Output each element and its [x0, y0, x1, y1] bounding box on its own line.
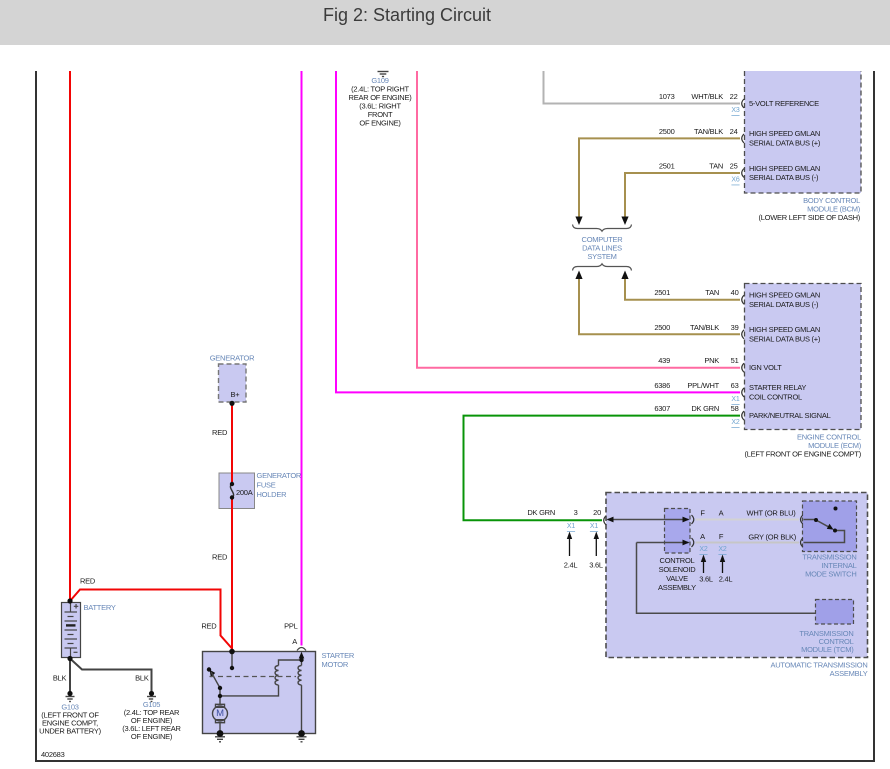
svg-text:X2: X2	[699, 546, 707, 553]
svg-text:PNK: PNK	[704, 356, 719, 365]
svg-text:SERIAL DATA BUS (-): SERIAL DATA BUS (-)	[749, 300, 819, 309]
svg-text:2501: 2501	[659, 162, 675, 171]
svg-text:(LEFT FRONT OF ENGINE COMPT): (LEFT FRONT OF ENGINE COMPT)	[745, 449, 862, 458]
svg-text:WHT (OR BLU): WHT (OR BLU)	[747, 509, 797, 518]
svg-text:UNDER BATTERY): UNDER BATTERY)	[39, 727, 101, 736]
svg-text:HIGH SPEED GMLAN: HIGH SPEED GMLAN	[749, 164, 820, 173]
svg-text:25: 25	[730, 162, 738, 171]
svg-text:HOLDER: HOLDER	[257, 490, 288, 499]
svg-text:G105: G105	[143, 700, 160, 709]
svg-text:OF ENGINE): OF ENGINE)	[359, 118, 401, 127]
svg-text:COIL CONTROL: COIL CONTROL	[749, 393, 802, 402]
svg-text:2501: 2501	[654, 288, 670, 297]
svg-text:6307: 6307	[654, 404, 670, 413]
svg-text:X6: X6	[731, 177, 739, 184]
svg-text:RED: RED	[201, 622, 217, 631]
svg-text:F: F	[719, 532, 724, 541]
svg-text:X1: X1	[567, 523, 575, 530]
svg-text:(LOWER LEFT SIDE OF DASH): (LOWER LEFT SIDE OF DASH)	[758, 213, 860, 222]
svg-text:RED: RED	[212, 428, 228, 437]
svg-text:HIGH SPEED GMLAN: HIGH SPEED GMLAN	[749, 325, 820, 334]
svg-text:2500: 2500	[659, 127, 675, 136]
svg-text:2500: 2500	[654, 323, 670, 332]
svg-text:TAN/BLK: TAN/BLK	[694, 127, 723, 136]
svg-text:PPL: PPL	[284, 622, 298, 631]
svg-text:5-VOLT REFERENCE: 5-VOLT REFERENCE	[749, 99, 819, 108]
svg-text:1073: 1073	[659, 92, 675, 101]
svg-text:ASSEMBLY: ASSEMBLY	[830, 669, 868, 678]
svg-text:A: A	[719, 509, 724, 518]
svg-text:SERIAL DATA BUS (+): SERIAL DATA BUS (+)	[749, 139, 821, 148]
svg-text:SERIAL DATA BUS (+): SERIAL DATA BUS (+)	[749, 335, 821, 344]
svg-text:SERIAL DATA BUS (-): SERIAL DATA BUS (-)	[749, 173, 819, 182]
svg-text:MODULE (BCM): MODULE (BCM)	[807, 205, 861, 214]
svg-text:40: 40	[731, 288, 739, 297]
svg-text:2.4L: 2.4L	[719, 574, 733, 583]
svg-text:X1: X1	[731, 396, 739, 403]
svg-text:GENERATOR: GENERATOR	[257, 471, 302, 480]
svg-text:MODE SWITCH: MODE SWITCH	[805, 570, 856, 579]
svg-text:63: 63	[731, 381, 739, 390]
svg-text:58: 58	[731, 404, 739, 413]
svg-text:22: 22	[730, 92, 738, 101]
svg-text:B+: B+	[231, 390, 241, 399]
svg-text:24: 24	[730, 127, 738, 136]
svg-text:HIGH SPEED GMLAN: HIGH SPEED GMLAN	[749, 129, 820, 138]
svg-text:6386: 6386	[654, 381, 670, 390]
svg-text:A: A	[700, 532, 705, 541]
svg-text:STARTER: STARTER	[322, 651, 355, 660]
svg-text:X3: X3	[731, 107, 739, 114]
svg-text:39: 39	[731, 323, 739, 332]
svg-text:STARTER RELAY: STARTER RELAY	[749, 383, 806, 392]
svg-text:BLK: BLK	[135, 674, 149, 683]
svg-text:402683: 402683	[41, 750, 65, 759]
svg-text:OF ENGINE): OF ENGINE)	[131, 732, 173, 741]
svg-text:GRY (OR BLK): GRY (OR BLK)	[748, 532, 796, 541]
svg-text:VALVE: VALVE	[666, 574, 688, 583]
svg-text:BATTERY: BATTERY	[84, 603, 116, 612]
svg-text:X2: X2	[731, 419, 739, 426]
svg-text:X2: X2	[718, 546, 726, 553]
svg-text:BLK: BLK	[53, 674, 67, 683]
svg-text:20: 20	[593, 508, 601, 517]
svg-text:PPL/WHT: PPL/WHT	[687, 381, 719, 390]
svg-text:GENERATOR: GENERATOR	[210, 354, 255, 363]
svg-text:SYSTEM: SYSTEM	[587, 252, 616, 261]
svg-text:3.6L: 3.6L	[589, 561, 603, 570]
svg-text:439: 439	[658, 356, 670, 365]
svg-text:Fig 2: Starting Circuit: Fig 2: Starting Circuit	[323, 5, 491, 25]
svg-text:200A: 200A	[236, 488, 253, 497]
svg-text:MOTOR: MOTOR	[322, 660, 349, 669]
svg-text:DK GRN: DK GRN	[691, 404, 719, 413]
svg-text:WHT/BLK: WHT/BLK	[691, 92, 723, 101]
svg-text:3: 3	[574, 508, 578, 517]
svg-text:F: F	[700, 509, 705, 518]
svg-text:ASSEMBLY: ASSEMBLY	[658, 583, 696, 592]
svg-text:IGN VOLT: IGN VOLT	[749, 363, 782, 372]
svg-text:CONTROL: CONTROL	[660, 556, 695, 565]
svg-text:PARK/NEUTRAL SIGNAL: PARK/NEUTRAL SIGNAL	[749, 411, 831, 420]
svg-text:51: 51	[731, 356, 739, 365]
svg-text:HIGH SPEED GMLAN: HIGH SPEED GMLAN	[749, 291, 820, 300]
svg-text:TAN: TAN	[705, 288, 719, 297]
svg-text:TAN/BLK: TAN/BLK	[690, 323, 719, 332]
svg-text:M: M	[216, 708, 224, 719]
svg-text:RED: RED	[212, 553, 228, 562]
svg-text:2.4L: 2.4L	[564, 561, 578, 570]
svg-text:G103: G103	[61, 703, 78, 712]
svg-text:MODULE (ECM): MODULE (ECM)	[808, 441, 862, 450]
svg-text:A: A	[292, 637, 297, 646]
svg-text:SOLENOID: SOLENOID	[659, 565, 697, 574]
svg-text:G109: G109	[371, 76, 388, 85]
svg-text:DK GRN: DK GRN	[527, 508, 555, 517]
svg-text:MODULE (TCM): MODULE (TCM)	[801, 645, 854, 654]
svg-text:TAN: TAN	[709, 162, 723, 171]
svg-text:X1: X1	[590, 523, 598, 530]
svg-text:RED: RED	[80, 577, 96, 586]
svg-text:FUSE: FUSE	[257, 481, 276, 490]
svg-text:3.6L: 3.6L	[699, 574, 713, 583]
